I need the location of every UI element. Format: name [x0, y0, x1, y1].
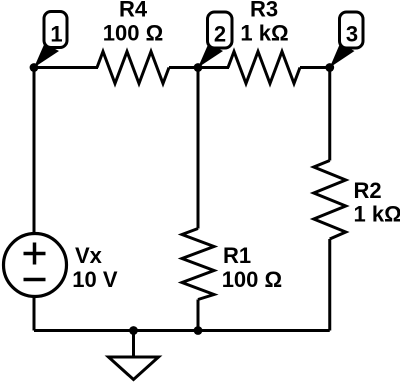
- svg-text:1 kΩ: 1 kΩ: [354, 202, 400, 227]
- svg-text:2: 2: [214, 21, 226, 46]
- svg-text:3: 3: [346, 21, 358, 46]
- ground: [109, 357, 159, 380]
- junction dot node 2: [194, 63, 203, 72]
- plus sign of Vx: [24, 252, 46, 256]
- voltage source Vx: [4, 234, 67, 297]
- wire right vertical: R2 to bottom rail: [328, 239, 331, 331]
- wire right vertical: node 3 to R2: [328, 68, 331, 161]
- junction dot ground: [129, 326, 138, 335]
- node 3 flag: [340, 12, 364, 48]
- junction dot node 1: [30, 63, 39, 72]
- junction dot node 3: [325, 63, 334, 72]
- wire top: node 2 to R3: [198, 66, 229, 69]
- wire left vertical: node 1 to Vx top: [33, 68, 36, 235]
- svg-text:R2: R2: [354, 178, 382, 203]
- svg-text:10 V: 10 V: [72, 267, 118, 292]
- svg-text:100 Ω: 100 Ω: [103, 20, 163, 45]
- wire middle vertical: R1 to bottom rail: [197, 300, 200, 331]
- svg-text:100 Ω: 100 Ω: [222, 267, 282, 292]
- node 1 flag: [44, 12, 67, 48]
- wire left vertical: Vx bottom to bottom rail: [33, 296, 36, 331]
- wire middle vertical: node 2 to R1: [197, 68, 200, 229]
- resistor R3: [228, 52, 300, 84]
- wire top: node 1 to R4: [34, 66, 98, 69]
- node 1 flag pointer: [34, 44, 59, 68]
- junction dot R1 bottom: [194, 326, 203, 335]
- svg-text:1: 1: [50, 21, 62, 46]
- resistor R4: [97, 52, 169, 84]
- node 2 flag: [208, 12, 233, 48]
- svg-text:R1: R1: [223, 243, 251, 268]
- svg-text:Vx: Vx: [75, 243, 103, 268]
- wire top: R4 to node 2: [169, 66, 228, 69]
- ground stub wire: [132, 331, 135, 358]
- node 3 flag pointer: [330, 44, 355, 68]
- resistor R2: [314, 161, 346, 240]
- wire top: R3 to node 3: [300, 66, 330, 69]
- svg-text:R3: R3: [250, 0, 278, 22]
- resistor R1: [182, 229, 214, 300]
- svg-text:1 kΩ: 1 kΩ: [240, 20, 288, 45]
- node 2 flag pointer: [198, 44, 223, 68]
- minus sign of Vx: [24, 278, 46, 282]
- wire bottom rail: [34, 329, 330, 332]
- svg-text:R4: R4: [119, 0, 148, 22]
